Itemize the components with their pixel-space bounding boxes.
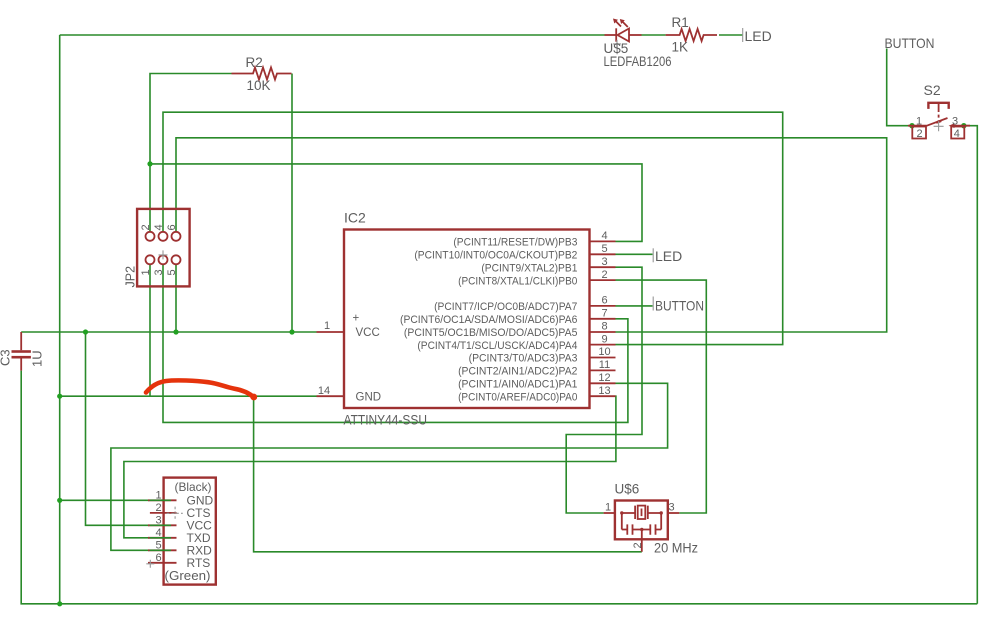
label U$6 value 20 MHz xyxy=(654,541,698,556)
wire MOSI JP2 pin3 to IC pin7 xyxy=(163,264,628,422)
LED U$5 emission arrows xyxy=(613,19,628,28)
svg-text:9: 9 xyxy=(601,333,607,345)
pin number JP2-6 xyxy=(166,224,178,230)
svg-text:(PCINT11/RESET/DW)PB3: (PCINT11/RESET/DW)PB3 xyxy=(453,237,577,249)
svg-text:(PCINT10/INT0/OC0A/CKOUT)PB2: (PCINT10/INT0/OC0A/CKOUT)PB2 xyxy=(414,250,577,262)
resonator U$6 box xyxy=(615,501,668,540)
label JP2 name rotated xyxy=(124,266,138,288)
label R1 name xyxy=(672,15,689,30)
IC2 pin name PB2 xyxy=(414,250,577,262)
svg-text:(PCINT3/T0/ADC3)PA3: (PCINT3/T0/ADC3)PA3 xyxy=(469,353,578,365)
node junction GND row xyxy=(57,394,62,399)
svg-text:VCC: VCC xyxy=(356,327,380,339)
svg-text:(Green): (Green) xyxy=(165,568,211,583)
IC2 pin name PB0 xyxy=(458,275,577,287)
node junction R2-RESET xyxy=(147,161,152,166)
svg-text:(PCINT6/OC1A/SDA/MOSI/ADC6)PA6: (PCINT6/OC1A/SDA/MOSI/ADC6)PA6 xyxy=(400,314,577,326)
wire GND to FTDI pin1 xyxy=(60,499,150,501)
svg-text:1U: 1U xyxy=(30,350,45,367)
wire C3 bottom to ground rail xyxy=(21,371,977,604)
FTDI connector box xyxy=(164,478,216,585)
svg-text:JP2: JP2 xyxy=(124,266,138,288)
svg-text:1: 1 xyxy=(155,489,161,501)
FTDI pin name VCC xyxy=(187,519,213,533)
svg-text:4: 4 xyxy=(954,128,960,140)
IC2 pin name PA7 xyxy=(434,301,577,313)
IC2 pin name PA6 xyxy=(400,314,577,326)
FTDI pin numbers xyxy=(155,489,161,564)
label R2 value 10K xyxy=(247,78,271,93)
svg-text:(PCINT5/OC1B/MISO/DO/ADC5)PA5: (PCINT5/OC1B/MISO/DO/ADC5)PA5 xyxy=(404,327,578,339)
svg-text:3: 3 xyxy=(153,269,165,275)
net label BUTTON at pin6 xyxy=(653,297,704,314)
IC2 pin name PA0 xyxy=(458,391,577,403)
FTDI pin name TXD xyxy=(187,531,211,545)
svg-text:C3: C3 xyxy=(0,349,13,366)
FTDI pin name RTS xyxy=(187,556,211,570)
svg-text:1: 1 xyxy=(605,502,611,514)
pin number JP2-3 xyxy=(153,269,165,275)
svg-text:12: 12 xyxy=(598,372,610,384)
svg-text:1: 1 xyxy=(140,269,152,275)
svg-text:(PCINT7/ICP/OC0B/ADC7)PA7: (PCINT7/ICP/OC0B/ADC7)PA7 xyxy=(434,301,577,313)
wire IC pin12 to FTDI RXD xyxy=(111,383,668,550)
FTDI pin name CTS xyxy=(187,506,211,520)
svg-text:8: 8 xyxy=(601,320,607,332)
svg-text:U$6: U$6 xyxy=(615,482,640,497)
svg-text:11: 11 xyxy=(599,359,610,371)
IC2 pin name PA4 xyxy=(417,340,577,352)
IC2 pin numbers right xyxy=(598,230,610,397)
svg-text:(PCINT8/XTAL1/CLKI)PB0: (PCINT8/XTAL1/CLKI)PB0 xyxy=(458,275,577,287)
node junction VCC-FTDI branch xyxy=(83,329,88,334)
switch S2 contact boxes xyxy=(912,127,964,139)
switch S2 origin cross xyxy=(934,121,944,131)
svg-text:ATTINY44-SSU: ATTINY44-SSU xyxy=(344,413,428,428)
FTDI pin name GND xyxy=(187,494,214,508)
IC2 pin name GND xyxy=(356,391,382,403)
pin number S2-1 xyxy=(916,115,922,127)
svg-text:+: + xyxy=(353,313,360,325)
switch S2 contacts xyxy=(908,118,970,128)
LED U$5 origin cross xyxy=(613,40,621,48)
connector JP2 box xyxy=(137,209,190,287)
wire R2 left to JP2 pin2 column xyxy=(150,74,232,232)
pin number S2-4 xyxy=(954,128,960,140)
label U$5 name xyxy=(604,41,629,56)
svg-text:R2: R2 xyxy=(246,55,263,70)
wire MISO JP2 pin6 to IC pin8 xyxy=(176,138,887,332)
svg-text:GND: GND xyxy=(356,391,382,403)
wire PB1 to resonator pin1 xyxy=(566,267,642,513)
wire IC pin13 to FTDI TXD xyxy=(124,396,616,538)
FTDI origin cross dashed xyxy=(167,507,183,520)
svg-text:2: 2 xyxy=(632,542,644,548)
resonator U$6 crystal xyxy=(622,506,661,519)
wire VCC rail xyxy=(21,331,316,333)
wire JP2 pin1 column down xyxy=(149,264,151,396)
svg-text:10K: 10K xyxy=(247,78,271,93)
IC2 box xyxy=(344,230,590,409)
node junction S2 pin1 xyxy=(909,123,914,128)
wire SCK JP2 pin4 to IC pin9 xyxy=(163,112,783,344)
svg-text:(Black): (Black) xyxy=(175,480,212,494)
svg-text:6: 6 xyxy=(601,295,607,307)
wire GND to resonator pin2 xyxy=(254,396,642,552)
svg-text:2: 2 xyxy=(140,224,152,230)
svg-text:20 MHz: 20 MHz xyxy=(654,541,698,556)
wire VCC to FTDI pin3 xyxy=(86,332,150,525)
svg-text:(PCINT0/AREF/ADC0)PA0: (PCINT0/AREF/ADC0)PA0 xyxy=(458,391,577,403)
IC2 pin name PB1 xyxy=(481,262,577,274)
pin number JP2-2 xyxy=(140,224,152,230)
svg-text:IC2: IC2 xyxy=(344,210,366,226)
IC2 pin name PA2 xyxy=(458,366,577,378)
IC2 pin name PA5 xyxy=(404,327,578,339)
svg-text:5: 5 xyxy=(166,269,178,275)
annotation red squiggle on GND wire xyxy=(146,380,257,400)
IC2 pin number 14 xyxy=(318,385,330,397)
svg-text:3: 3 xyxy=(952,115,958,127)
svg-text:3: 3 xyxy=(155,514,161,526)
wire PB0 to resonator pin3 xyxy=(616,280,707,513)
resonator U$6 internal capacitors xyxy=(620,511,663,539)
wire IC pin6 to BUTTON label xyxy=(616,305,653,307)
capacitor C3 xyxy=(12,332,31,371)
wire RESET net horizontal to IC pin4 xyxy=(150,164,642,242)
label U$6 name xyxy=(615,482,640,497)
svg-text:R1: R1 xyxy=(672,15,689,30)
resonator U$6 pins xyxy=(604,513,680,552)
svg-text:1: 1 xyxy=(324,320,330,332)
svg-text:13: 13 xyxy=(598,385,610,397)
svg-text:6: 6 xyxy=(166,224,178,230)
svg-text:LED: LED xyxy=(745,28,772,44)
wire GND row to IC pin14 xyxy=(60,395,317,397)
net label LED at pin5 xyxy=(653,248,682,264)
wire green overlaps on FTDI stubs xyxy=(150,500,172,550)
pin number JP2-1 xyxy=(140,269,152,275)
wire IC pin5 to LED label xyxy=(616,253,653,255)
svg-text:BUTTON: BUTTON xyxy=(655,297,704,313)
svg-text:3: 3 xyxy=(668,502,674,514)
IC2 pin name VCC with plus xyxy=(353,313,380,340)
node junction GND rail xyxy=(57,601,62,606)
svg-text:2: 2 xyxy=(155,502,161,514)
node junction GND-FTDI xyxy=(57,498,62,503)
wire GND left vertical xyxy=(59,35,61,604)
wire diode to R1 segment xyxy=(642,34,666,36)
svg-text:4: 4 xyxy=(153,224,165,230)
LED U$5 diode xyxy=(605,28,642,41)
svg-text:LED: LED xyxy=(655,248,682,264)
label C3 name rotated xyxy=(0,349,13,366)
FTDI label Black xyxy=(175,480,212,494)
IC2 pin name PA1 xyxy=(458,379,577,391)
svg-text:4: 4 xyxy=(601,230,607,242)
svg-text:(PCINT4/T1/SCL/USCK/ADC4)PA4: (PCINT4/T1/SCL/USCK/ADC4)PA4 xyxy=(417,340,577,352)
label IC2 value ATTINY44-SSU xyxy=(344,413,428,428)
IC2 right pin stubs xyxy=(590,241,616,396)
label U$5 value LEDFAB1206 xyxy=(604,54,672,69)
IC2 pin name PB3 xyxy=(453,237,577,249)
IC2 pin name PA3 xyxy=(469,353,578,365)
pin number JP2-4 xyxy=(153,224,165,230)
net label LED top xyxy=(743,28,772,44)
FTDI label Green xyxy=(165,568,211,583)
svg-text:5: 5 xyxy=(155,539,161,551)
net label BUTTON top xyxy=(885,35,935,51)
svg-text:LEDFAB1206: LEDFAB1206 xyxy=(604,54,672,69)
FTDI RTS cross xyxy=(146,560,154,568)
connector JP2 origin cross xyxy=(159,250,168,259)
pin number U$6-1 xyxy=(605,502,611,514)
switch S2 actuator xyxy=(928,103,948,122)
wire R1 to LED label xyxy=(719,34,743,36)
wire LED net top rail left segment xyxy=(60,34,605,36)
wire S2 pin3 to ground rail xyxy=(964,126,978,604)
FTDI pin stubs xyxy=(148,500,177,563)
wire R2 right to VCC rail xyxy=(291,74,293,333)
svg-text:BUTTON: BUTTON xyxy=(885,35,935,51)
resistor R1 xyxy=(666,29,717,41)
pin number JP2-5 xyxy=(166,269,178,275)
svg-text:2: 2 xyxy=(916,128,922,140)
pin number U$6-3 xyxy=(668,502,674,514)
svg-text:5: 5 xyxy=(601,243,607,255)
wire JP2 pin5 to VCC rail xyxy=(175,264,177,332)
label IC2 name xyxy=(344,210,366,226)
svg-text:S2: S2 xyxy=(924,82,941,98)
node junction S2 pin3 xyxy=(961,123,966,128)
svg-text:(PCINT2/AIN1/ADC2)PA2: (PCINT2/AIN1/ADC2)PA2 xyxy=(458,366,577,378)
label R2 name xyxy=(246,55,263,70)
label C3 value 1U rotated xyxy=(30,350,45,367)
FTDI pin name RXD xyxy=(187,544,213,558)
pin number S2-2 xyxy=(916,128,922,140)
pin number U$6-2 rotated xyxy=(632,542,644,548)
svg-text:10: 10 xyxy=(598,346,610,358)
IC2 left pin stubs xyxy=(317,332,345,396)
svg-text:(PCINT1/AIN0/ADC1)PA1: (PCINT1/AIN0/ADC1)PA1 xyxy=(458,379,577,391)
IC2 pin number 1 xyxy=(324,320,330,332)
svg-text:6: 6 xyxy=(155,552,161,564)
node junction VCC-R2 xyxy=(289,329,294,334)
svg-text:1K: 1K xyxy=(672,40,689,55)
svg-text:2: 2 xyxy=(601,269,607,281)
svg-text:1: 1 xyxy=(916,115,922,127)
svg-text:14: 14 xyxy=(318,385,330,397)
svg-text:(PCINT9/XTAL2)PB1: (PCINT9/XTAL2)PB1 xyxy=(481,262,577,274)
wire BUTTON label to S2 pin1 xyxy=(887,49,908,126)
svg-text:3: 3 xyxy=(601,256,607,268)
label S2 name xyxy=(924,82,941,98)
svg-text:4: 4 xyxy=(155,527,161,539)
resistor R2 xyxy=(232,68,292,80)
connector JP2 pin circles xyxy=(146,232,181,264)
svg-text:7: 7 xyxy=(601,308,607,320)
label R1 value 1K xyxy=(672,40,689,55)
pin number S2-3 xyxy=(952,115,958,127)
node junction VCC-JP2 pin5 xyxy=(173,329,178,334)
